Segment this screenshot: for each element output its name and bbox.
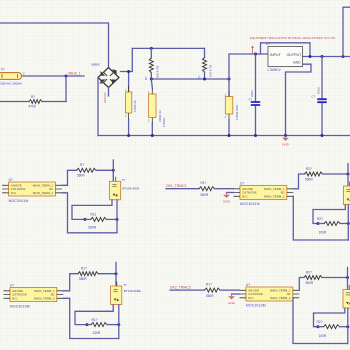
junction output-C5 (321, 55, 324, 58)
wire net to R11 (170, 289, 205, 291)
svg-text:MOC3041M: MOC3041M (9, 199, 29, 203)
wire R6 to triac T2 (98, 273, 116, 275)
svg-text:F?: F? (1, 68, 5, 72)
capacitor C1 (X2 film) (125, 89, 132, 118)
label R2 value (rotated) (155, 65, 159, 78)
svg-text:MAIN_TERM_2: MAIN_TERM_2 (34, 296, 55, 300)
svg-text:B1: B1 (100, 81, 104, 85)
opto-triac U5 MOC3023M (240, 287, 300, 301)
wire R13 right (340, 326, 348, 328)
wire gnd rail (98, 135, 350, 137)
label R11 value (206, 294, 214, 298)
wire regulator gnd path (286, 64, 312, 135)
label R4 ref (80, 163, 84, 167)
triac T4 BT136 (343, 285, 350, 308)
junction HV bus at R2 (150, 47, 153, 50)
label U2 ref (9, 178, 13, 182)
svg-text:ANODE: ANODE (242, 187, 253, 191)
wire net to R8 (166, 188, 199, 190)
svg-text:275VAC: 275VAC (162, 117, 166, 127)
svg-text:R2?: R2? (306, 270, 312, 274)
svg-text:CATHODE: CATHODE (248, 292, 263, 296)
svg-text:MAIN_TERM_2: MAIN_TERM_2 (264, 194, 285, 198)
wire T4 gate loop (314, 308, 345, 326)
svg-text:10K 4.7W: 10K 4.7W (155, 65, 159, 78)
wire T1 MT1 down (116, 200, 118, 233)
label U5 value (246, 304, 266, 308)
wire U4 cathode stub (227, 192, 234, 194)
label R13 value (319, 334, 327, 338)
junction rail C3 (228, 134, 231, 137)
svg-text:MOC3041M: MOC3041M (240, 202, 260, 206)
junction R5-MT1 (116, 218, 119, 221)
svg-text:250VAC 500MA: 250VAC 500MA (0, 81, 23, 85)
svg-text:MOC3023M: MOC3023M (10, 304, 30, 308)
label R3 (rotated) (197, 75, 201, 79)
label R8 value (201, 193, 209, 197)
capacitor C2 (film) (148, 91, 156, 122)
junction R3 out (203, 78, 206, 81)
bridge AC2 stub (bottom) (108, 88, 110, 97)
svg-text:100U: 100U (316, 87, 320, 94)
wire R5 right (107, 218, 118, 220)
wire R10 left (318, 223, 324, 225)
svg-text:U?: U? (246, 283, 250, 287)
svg-text:470NF X2: 470NF X2 (133, 100, 137, 112)
svg-text:NC: NC (281, 191, 285, 195)
svg-text:OK2_TRIAC2: OK2_TRIAC2 (170, 285, 191, 289)
wire neutral line (0, 101, 66, 103)
label U3 value (10, 304, 30, 308)
resistor R6 360R (78, 272, 98, 276)
wire R9 to triac T3 (323, 173, 349, 175)
junction T1 gate node (112, 169, 115, 172)
resistor R7 100R (91, 323, 107, 327)
label R3 value (rotated) (209, 64, 213, 77)
triac T1 BT136 (110, 177, 121, 200)
svg-text:R1?: R1? (92, 318, 98, 322)
wire R8 to U4 anode (215, 188, 234, 190)
svg-text:T?: T? (122, 178, 126, 182)
junction T2 node (115, 272, 118, 275)
junction rail C4 (254, 134, 257, 137)
svg-text:GND: GND (293, 61, 301, 65)
net label OK2_TRIAC2 (red) (170, 285, 191, 289)
bridge rectifier D1 (MB6S) outline (98, 68, 119, 88)
svg-text:NC: NC (51, 293, 55, 297)
svg-text:R?: R? (144, 76, 148, 80)
power port GND at U5 cathode (228, 294, 236, 305)
svg-text:GND: GND (282, 142, 290, 146)
label T1 value (123, 186, 140, 190)
svg-text:0.39UF 250V: 0.39UF 250V (235, 104, 239, 120)
wire input node (229, 54, 268, 97)
svg-text:220U: 220U (250, 90, 254, 97)
label R5 value (89, 226, 97, 230)
svg-text:R2?: R2? (306, 167, 312, 171)
label C3 value (rotated) (235, 104, 239, 120)
label T1 ref (122, 178, 126, 182)
svg-text:OK1_TRIAC1: OK1_TRIAC1 (166, 184, 187, 188)
svg-text:MAIN_TERM_1: MAIN_TERM_1 (34, 289, 55, 293)
svg-text:U?: U? (10, 284, 14, 288)
junction node VBUS (65, 75, 68, 78)
label D? near bridge (100, 81, 104, 85)
svg-text:N/C: N/C (248, 296, 254, 300)
wire U4 pin4 return rail (293, 196, 348, 240)
wire U3 pin4 return rail (63, 298, 119, 338)
label MB6S (92, 63, 100, 67)
svg-text:560R: 560R (206, 294, 214, 298)
wire bypass over regulator (261, 43, 311, 57)
label R7 value (93, 331, 101, 335)
triac T3 BT136 (344, 182, 350, 205)
wire T2 gate loop (75, 305, 113, 325)
wire T1 MT2 stub up (112, 160, 114, 181)
wire C3 pins (228, 91, 230, 136)
junction input node at C2 top (228, 78, 231, 81)
svg-text:230VAC: 230VAC (103, 91, 107, 103)
svg-text:MAIN_TERM_2: MAIN_TERM_2 (33, 191, 54, 195)
junction rail C1 (127, 134, 130, 137)
label C2 value2 (rotated) (162, 117, 166, 127)
svg-text:L7805CV: L7805CV (268, 68, 282, 72)
svg-text:R11: R11 (91, 213, 97, 217)
wire T2 MT2 stub up (115, 263, 117, 287)
resistor R2 dropper (vert) (149, 48, 153, 79)
wire bridge plus output (121, 48, 133, 92)
label R? (bleeder) (31, 95, 35, 99)
label R4 value (77, 174, 85, 178)
resistor R5 360R (91, 217, 107, 221)
svg-text:U?: U? (9, 178, 13, 182)
svg-text:560R: 560R (77, 174, 85, 178)
label U4 value (240, 202, 260, 206)
label R11 ref (206, 282, 212, 286)
svg-text:CATHODE: CATHODE (11, 187, 26, 191)
junction T4 node (346, 276, 349, 279)
resistor R8 560R (199, 187, 215, 191)
wire output to top right (343, 7, 350, 56)
opto-triac U3 MOC3023M (4, 288, 64, 302)
wire U5 pin4 return rail (293, 298, 348, 344)
label R2 (rotated) (144, 76, 148, 80)
label R10 value (319, 231, 327, 235)
wire T3 MT2 stub up (347, 164, 349, 187)
label 470K (29, 104, 37, 108)
svg-text:220NF X2: 220NF X2 (158, 110, 162, 122)
svg-text:ANODE: ANODE (12, 289, 23, 293)
wire R7 left (87, 324, 91, 326)
wire T4 MT1 down (347, 308, 349, 343)
wire U3 pin6 to R6 (63, 274, 78, 291)
label C5 ref (311, 95, 315, 99)
resistor R bleeder 470K (29, 100, 42, 104)
triac T2 BT136 (111, 282, 122, 305)
svg-text:R1?: R1? (201, 181, 207, 185)
wire U5 cathode stub (232, 293, 240, 295)
capacitor C3 (film) on input (225, 94, 233, 119)
label R9 ref (306, 167, 312, 171)
fuse F1 (0, 68, 26, 80)
junction gate-R13 (317, 325, 320, 328)
svg-text:CATHODE: CATHODE (12, 293, 27, 297)
opto-triac U4 MOC3041M (234, 186, 294, 200)
wire U2 pin6 to R4 (62, 170, 77, 185)
svg-text:470K: 470K (29, 104, 37, 108)
svg-text:100R: 100R (93, 331, 101, 335)
junction rail C2 (151, 134, 154, 137)
wire T4 MT2 stub up (347, 268, 349, 290)
label C2 value (rotated) (158, 110, 162, 122)
svg-text:U?: U? (266, 42, 270, 46)
label R6 value (79, 277, 87, 281)
svg-text:560R: 560R (89, 226, 97, 230)
resistor R4 360R (77, 168, 97, 172)
svg-text:ANODE: ANODE (11, 183, 22, 187)
svg-text:560R: 560R (201, 193, 209, 197)
wire mains line L (top) (0, 23, 109, 67)
svg-text:560R: 560R (79, 277, 87, 281)
label R13 ref (317, 320, 323, 324)
wire U5 pin6 to R12 (299, 278, 304, 291)
svg-text:GND: GND (223, 199, 231, 203)
voltage regulator U1 L7805 (268, 47, 303, 67)
label U1 ref (266, 42, 270, 46)
wire dropper out rail (151, 78, 229, 80)
resistor R11 560R (205, 288, 221, 292)
svg-text:560R: 560R (306, 281, 314, 285)
svg-text:BT136-600E: BT136-600E (124, 289, 141, 293)
svg-text:R?: R? (31, 95, 35, 99)
wire VBUS down to neutral line (65, 76, 67, 102)
label R9 value (305, 177, 313, 181)
junction T3 node (347, 173, 350, 176)
label R12 value (306, 281, 314, 285)
wire U2 pin4 return rail (62, 193, 117, 233)
junction R10-MT1 (347, 222, 350, 225)
net label OK1_TRIAC1 (red) (166, 184, 187, 188)
power port +HV (red arrow up) (251, 45, 254, 54)
svg-text:NC: NC (287, 292, 291, 296)
wire R12 to triac T4 (322, 277, 348, 279)
resistor R10 100R (324, 222, 340, 226)
junction at C4 tap (254, 53, 257, 56)
svg-text:MAIN_TERM_1: MAIN_TERM_1 (270, 288, 291, 292)
label C4 ref (249, 98, 253, 102)
svg-text:N/C: N/C (12, 296, 18, 300)
svg-text:MAIN_TERM_1: MAIN_TERM_1 (33, 183, 54, 187)
net label on bridge bottom (red, rotated) (103, 91, 107, 103)
svg-text:GND: GND (228, 301, 236, 305)
wire T3 gate loop (313, 205, 345, 224)
svg-text:BT136-600E: BT136-600E (123, 186, 140, 190)
junction output-bypass (309, 55, 312, 58)
svg-text:MAIN_TERM_2: MAIN_TERM_2 (270, 296, 291, 300)
svg-text:INPUT: INPUT (270, 53, 282, 57)
svg-text:CATHODE: CATHODE (242, 191, 257, 195)
label T2 value (124, 289, 141, 293)
wire R13 left (318, 326, 324, 328)
svg-text:NC: NC (49, 187, 53, 191)
wire R4 to triac T1 (96, 169, 113, 171)
net label VBUS1 (red) (68, 72, 81, 76)
svg-text:10K 4.7W: 10K 4.7W (209, 64, 213, 77)
wire fuse to node VBUS (26, 75, 85, 77)
wire R10 right (340, 223, 348, 225)
junction R7-MT1 (117, 323, 120, 326)
junction gate-R5 (84, 218, 87, 221)
label R6 ref (81, 267, 87, 271)
svg-text:T?: T? (123, 283, 127, 287)
label U4 ref (240, 182, 244, 186)
svg-text:OUTPUT: OUTPUT (287, 53, 303, 57)
resistor R13 100R (324, 325, 340, 329)
power port GND (red) (282, 136, 290, 147)
svg-text:ANODE: ANODE (248, 288, 259, 292)
label C1 value (rotated) (133, 100, 137, 112)
label R8 ref (201, 181, 207, 185)
svg-text:R2?: R2? (317, 320, 323, 324)
junction gate-R10 (317, 222, 320, 225)
wire C1 to gnd rail (128, 86, 130, 136)
wire bridge minus to gnd rail (97, 78, 99, 136)
svg-text:560R: 560R (305, 177, 313, 181)
wire T3 MT1 down (347, 205, 349, 240)
label U1 value (268, 68, 282, 72)
label U5 ref (246, 283, 250, 287)
wire U4 pin6 to R9 (293, 174, 304, 189)
wire HV bus (132, 47, 204, 49)
capacitor C4 electrolytic (251, 54, 260, 136)
junction gate-R7 (86, 323, 89, 326)
resistor R12 560R (304, 276, 322, 280)
red title annotation (250, 36, 335, 40)
label U2 value (9, 199, 29, 203)
svg-text:C?: C? (311, 95, 315, 99)
wire R11 to U5 anode (220, 289, 239, 291)
svg-text:EQUIPMENT BAGLANTISI BITINCE U: EQUIPMENT BAGLANTISI BITINCE UZAKLASTIRI… (250, 36, 335, 40)
wire T2 MT1 down (118, 305, 120, 339)
label C5 value (rotated) (316, 87, 320, 94)
label R5 ref (91, 213, 97, 217)
svg-text:MOC3023M: MOC3023M (246, 304, 266, 308)
svg-text:MB6S: MB6S (92, 63, 100, 67)
resistor R3 dropper (vert) (203, 48, 207, 79)
resistor R9 560R (305, 172, 323, 176)
junction R2 out (150, 78, 153, 81)
label R12 ref (306, 270, 312, 274)
svg-text:R1?: R1? (206, 282, 212, 286)
wire T1 gate loop (72, 200, 112, 220)
label U3 ref (10, 284, 14, 288)
svg-text:R?: R? (80, 163, 84, 167)
junction rail gnd (284, 134, 287, 137)
power port GND at U4 cathode (223, 193, 231, 204)
junction R13-MT1 (346, 325, 349, 328)
capacitor C5 electrolytic on output (317, 57, 326, 136)
wire R5 left (85, 218, 91, 220)
svg-text:N/C: N/C (242, 194, 248, 198)
label R7 ref (92, 318, 98, 322)
svg-text:MAIN_TERM_1: MAIN_TERM_1 (264, 187, 285, 191)
wire R2 out down to C2 (151, 79, 152, 136)
opto-triac U2 MOC3041M (2, 182, 62, 196)
svg-text:C?: C? (249, 98, 253, 102)
fuse F1 value label (0, 81, 23, 85)
label R10 ref (317, 217, 323, 221)
svg-text:R2?: R2? (317, 217, 323, 221)
wire R7 right (107, 324, 119, 326)
svg-text:U?: U? (240, 182, 244, 186)
svg-text:100R: 100R (319, 231, 327, 235)
svg-text:R1?: R1? (81, 267, 87, 271)
svg-text:100R: 100R (319, 334, 327, 338)
junction rail C5 (321, 134, 324, 137)
svg-text:N/C: N/C (11, 191, 17, 195)
junction bridge plus (127, 70, 130, 73)
wire regulator output (303, 56, 350, 58)
label C4 value (rotated) (250, 90, 254, 97)
label T2 ref (123, 283, 127, 287)
svg-text:VBUS_1: VBUS_1 (68, 72, 81, 76)
junction output-up (342, 55, 345, 58)
